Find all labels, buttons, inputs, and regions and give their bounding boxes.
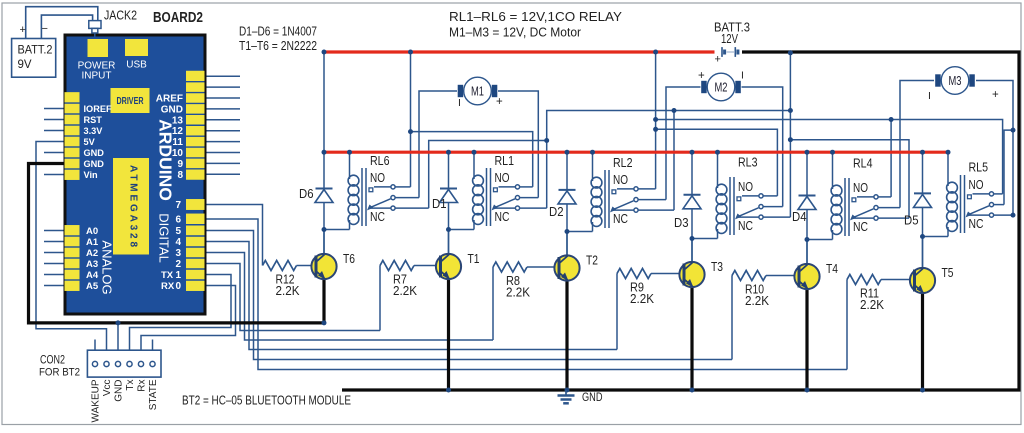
- svg-text:FOR BT2: FOR BT2: [39, 367, 80, 379]
- svg-text:RST: RST: [84, 115, 103, 125]
- svg-text:4: 4: [175, 237, 181, 248]
- svg-text:T1: T1: [468, 252, 480, 266]
- svg-text:D2: D2: [549, 205, 564, 219]
- svg-text:3.3V: 3.3V: [84, 126, 104, 136]
- svg-text:D6: D6: [299, 187, 314, 201]
- svg-text:11: 11: [172, 137, 183, 148]
- svg-text:M3: M3: [949, 74, 962, 88]
- svg-text:USB: USB: [126, 60, 147, 71]
- svg-text:NO: NO: [370, 171, 385, 185]
- svg-text:Vcc: Vcc: [102, 380, 113, 397]
- svg-text:M1: M1: [471, 84, 484, 98]
- svg-text:10: 10: [172, 148, 184, 159]
- svg-text:RL1–RL6 = 12V,1CO RELAY: RL1–RL6 = 12V,1CO RELAY: [449, 10, 623, 24]
- svg-text:D4: D4: [792, 210, 807, 224]
- svg-text:2: 2: [175, 259, 181, 270]
- svg-text:RL4: RL4: [853, 156, 873, 171]
- svg-text:GND: GND: [161, 104, 183, 115]
- svg-text:+: +: [698, 70, 705, 82]
- svg-text:IOREF: IOREF: [84, 104, 112, 114]
- svg-text:NC: NC: [969, 217, 984, 231]
- svg-text:NO: NO: [853, 181, 868, 195]
- svg-text:+: +: [20, 24, 26, 36]
- svg-text:2.2K: 2.2K: [860, 298, 885, 312]
- svg-text:A5: A5: [86, 281, 99, 292]
- svg-text:0: 0: [175, 281, 181, 292]
- svg-text:D5: D5: [904, 214, 919, 228]
- svg-text:9: 9: [177, 159, 183, 170]
- svg-text:WAKEUP: WAKEUP: [91, 379, 102, 422]
- svg-text:6: 6: [175, 215, 181, 226]
- svg-text:STATE: STATE: [148, 379, 159, 410]
- svg-text:T6: T6: [343, 252, 355, 266]
- svg-text:NO: NO: [613, 173, 628, 187]
- svg-text:NO: NO: [495, 171, 510, 185]
- svg-text:A3: A3: [86, 259, 98, 270]
- svg-text:GND: GND: [582, 390, 603, 404]
- svg-text:9V: 9V: [18, 59, 32, 71]
- svg-text:+: +: [715, 54, 721, 66]
- svg-text:NC: NC: [495, 210, 510, 224]
- svg-text:A2: A2: [86, 248, 98, 259]
- svg-text:RL1: RL1: [495, 153, 515, 168]
- svg-text:TX: TX: [161, 270, 174, 281]
- svg-text:T2: T2: [586, 254, 598, 268]
- svg-text:GND: GND: [84, 148, 105, 158]
- svg-text:T4: T4: [826, 262, 838, 276]
- svg-text:M2: M2: [715, 80, 728, 94]
- svg-text:BT2 = HC–05 BLUETOOTH MODULE: BT2 = HC–05 BLUETOOTH MODULE: [182, 394, 351, 408]
- svg-text:D3: D3: [674, 216, 689, 230]
- svg-text:JACK2: JACK2: [104, 9, 137, 23]
- svg-text:Tx: Tx: [125, 380, 136, 391]
- svg-text:GND: GND: [84, 159, 105, 169]
- svg-text:2.2K: 2.2K: [393, 284, 418, 298]
- svg-text:13: 13: [172, 115, 184, 126]
- svg-text:NC: NC: [853, 220, 868, 234]
- svg-text:RL6: RL6: [370, 153, 390, 168]
- svg-text:AREF: AREF: [156, 94, 183, 105]
- svg-text:3: 3: [175, 248, 181, 259]
- svg-text:7: 7: [175, 200, 181, 211]
- svg-text:I: I: [458, 97, 461, 109]
- svg-text:2.2K: 2.2K: [745, 294, 770, 308]
- svg-text:12V: 12V: [721, 32, 738, 46]
- svg-text:DRIVER: DRIVER: [117, 95, 144, 107]
- svg-text:NC: NC: [370, 210, 385, 224]
- svg-text:+: +: [992, 89, 999, 101]
- svg-text:T1–T6 = 2N2222: T1–T6 = 2N2222: [239, 39, 317, 53]
- svg-text:NO: NO: [738, 180, 753, 194]
- svg-text:1: 1: [175, 270, 181, 281]
- svg-text:BOARD2: BOARD2: [153, 10, 203, 26]
- svg-text:NC: NC: [738, 219, 753, 233]
- svg-text:RL3: RL3: [738, 155, 758, 170]
- svg-text:NO: NO: [969, 178, 984, 192]
- svg-text:D1: D1: [432, 197, 447, 211]
- svg-text:D1–D6 = 1N4007: D1–D6 = 1N4007: [239, 25, 317, 39]
- svg-text:Rx: Rx: [137, 380, 148, 392]
- svg-text:NC: NC: [613, 212, 628, 226]
- svg-text:RL2: RL2: [613, 155, 633, 170]
- svg-text:INPUT: INPUT: [82, 71, 112, 82]
- svg-text:A1: A1: [86, 237, 99, 248]
- svg-text:I: I: [928, 90, 931, 102]
- svg-text:2.2K: 2.2K: [630, 292, 655, 306]
- svg-text:ATMEGA328: ATMEGA328: [128, 165, 139, 247]
- svg-text:8: 8: [177, 170, 183, 181]
- svg-text:DIGITAL: DIGITAL: [157, 213, 172, 263]
- svg-text:A4: A4: [86, 270, 99, 281]
- svg-text:+: +: [496, 96, 503, 108]
- svg-text:ANALOG: ANALOG: [100, 240, 115, 294]
- svg-text:Vin: Vin: [84, 170, 99, 180]
- svg-text:M1–M3 = 12V, DC Motor: M1–M3 = 12V, DC Motor: [449, 26, 581, 40]
- svg-text:RL5: RL5: [969, 160, 989, 175]
- svg-text:T5: T5: [942, 266, 954, 280]
- svg-text:5V: 5V: [84, 137, 96, 147]
- svg-text:RX: RX: [161, 281, 175, 292]
- svg-text:5: 5: [175, 226, 181, 237]
- svg-text:−: −: [42, 23, 48, 35]
- svg-text:CON2: CON2: [40, 355, 65, 367]
- svg-text:I: I: [741, 70, 744, 82]
- svg-text:2.2K: 2.2K: [276, 284, 301, 298]
- svg-text:BATT.2: BATT.2: [18, 45, 53, 57]
- svg-text:T3: T3: [711, 260, 723, 274]
- svg-text:2.2K: 2.2K: [506, 286, 531, 300]
- svg-text:12: 12: [172, 126, 184, 137]
- svg-text:GND: GND: [114, 380, 125, 402]
- svg-text:A0: A0: [86, 226, 98, 237]
